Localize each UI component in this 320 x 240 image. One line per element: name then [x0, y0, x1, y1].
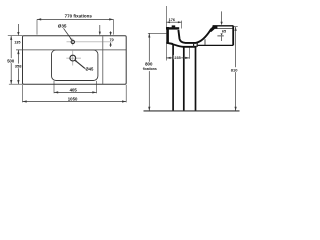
column back line — [195, 47, 197, 111]
label Ø45 leader — [75, 60, 85, 68]
column front line — [172, 44, 174, 111]
deck divider line — [102, 36, 104, 84]
section: front apron bottom — [166, 43, 173, 44]
dim 770 right extension line — [112, 19, 114, 34]
dim 1050 right extension — [125, 85, 127, 103]
section: back step — [217, 35, 223, 37]
marker arrow on top edge — [99, 25, 101, 34]
dim 65 lower arrowhead — [221, 33, 223, 35]
dim 70 upper arrowhead — [110, 32, 112, 36]
dim 800 bottom arrow — [148, 107, 150, 111]
svg-text:Ø45: Ø45 — [85, 67, 94, 72]
svg-text:810: 810 — [231, 67, 238, 72]
dim 358 text — [14, 64, 22, 69]
floor line — [144, 110, 240, 112]
svg-text:135: 135 — [14, 41, 20, 45]
dim 800 fixations text — [142, 62, 157, 71]
dim 176 left arrow — [166, 21, 170, 23]
section: front rim top — [166, 27, 179, 29]
dim 70 text — [109, 37, 114, 41]
dim 135 upper outside arrow — [17, 24, 19, 32]
dim 500 top arrow — [10, 36, 12, 40]
dim 405 right extension — [96, 81, 98, 93]
dim 70 lower arrow — [110, 46, 112, 48]
dim 810 top extension — [234, 26, 238, 28]
label Ø35 leader arrowhead — [70, 38, 72, 41]
dim 405 right arrow — [92, 91, 96, 93]
dim 235 line — [166, 57, 189, 59]
section: tap deck top — [213, 25, 234, 27]
svg-text:70: 70 — [110, 38, 114, 42]
dim 405 left extension — [53, 81, 55, 93]
label Ø35 leader — [64, 28, 72, 39]
svg-text:405: 405 — [70, 88, 78, 93]
tap hole centerline — [67, 41, 114, 43]
dim 65 lower arrow shaft — [220, 36, 222, 41]
section: bowl underside left — [170, 43, 197, 47]
dim 176 right extension — [181, 21, 183, 29]
tap hole circle — [71, 40, 74, 43]
drain crosshair horizontal — [66, 57, 81, 59]
dim 500 line — [10, 36, 12, 84]
dim 235 text — [174, 55, 182, 60]
dim 135 upper arrowhead — [17, 32, 19, 36]
dim 65 upper arrowhead — [221, 22, 223, 26]
dim 1050 right arrow — [122, 100, 126, 102]
section: rim peak — [208, 26, 217, 32]
drain circle — [70, 55, 76, 61]
dim 770 fixations line — [37, 18, 113, 20]
dim 405 left arrow — [54, 91, 58, 93]
dim 1050 left arrow — [23, 100, 27, 102]
dim 810 text — [230, 67, 238, 72]
dim 1050 left extension — [22, 85, 24, 103]
dim 70 upper arrow — [110, 31, 112, 32]
svg-text:500: 500 — [7, 58, 15, 63]
dim 235 right arrow — [185, 57, 189, 59]
dim 405 line — [54, 91, 97, 93]
dim 810 bottom arrow — [235, 107, 237, 111]
dim 358 bottom arrow — [17, 80, 19, 84]
section: underside right — [197, 44, 234, 46]
section: under-ledge line — [216, 28, 233, 30]
dim 800 fixations line — [148, 33, 150, 111]
drain crosshair vertical — [72, 51, 74, 66]
dim 810 top arrow — [235, 27, 237, 31]
svg-text:770 fixations: 770 fixations — [65, 13, 93, 18]
dim 770 left extension line — [36, 19, 38, 34]
dim 500 text — [6, 58, 15, 63]
dim 358 top arrow — [17, 50, 19, 54]
svg-text:358: 358 — [15, 64, 22, 69]
drain pipe right — [196, 43, 198, 47]
svg-text:235: 235 — [174, 56, 180, 60]
dim 176 line — [166, 21, 181, 23]
dim 358 line — [17, 50, 19, 84]
dim 235 right extension — [188, 48, 190, 59]
bowl rounded rect — [52, 50, 98, 81]
column middle line — [183, 47, 185, 111]
svg-text:fixations: fixations — [143, 67, 157, 71]
dim 770 left arrow — [37, 18, 41, 20]
svg-text:Ø35: Ø35 — [58, 23, 67, 28]
top edge left extension — [8, 35, 23, 37]
drain pipe left — [193, 43, 195, 47]
dim 810 line — [235, 27, 237, 111]
section: front edge — [166, 27, 169, 43]
bottom edge left extension — [9, 83, 23, 85]
dim 770 right arrow — [109, 18, 113, 20]
section: deck nub — [172, 25, 176, 27]
section: bowl interior profile — [178, 29, 211, 43]
dim 1050 line — [23, 101, 127, 103]
tap hole vertical centerline — [72, 39, 74, 46]
dim 176 right arrow — [178, 21, 182, 23]
dim 800 top arrow — [148, 33, 150, 37]
section: wall edge — [232, 26, 234, 46]
marker arrowhead — [99, 32, 101, 36]
dim 235 left arrow — [166, 57, 170, 59]
section: bracket — [204, 39, 206, 45]
front edge tall extension line — [165, 6, 167, 29]
basin outer rect (front view) — [23, 36, 127, 84]
svg-text:176: 176 — [169, 18, 175, 22]
dim 235 left extension — [165, 44, 167, 61]
svg-text:800: 800 — [145, 62, 153, 67]
dim 800 fixations extension — [148, 32, 167, 34]
back ledge line — [16, 49, 126, 51]
svg-text:65: 65 — [222, 30, 226, 34]
dim 65 upper arrow shaft — [221, 11, 223, 22]
dim 70 lower arrowhead — [110, 42, 112, 46]
svg-text:1050: 1050 — [68, 97, 78, 102]
dim 500 bottom arrow — [10, 80, 12, 84]
label Ø45 leader arrowhead — [74, 60, 77, 63]
